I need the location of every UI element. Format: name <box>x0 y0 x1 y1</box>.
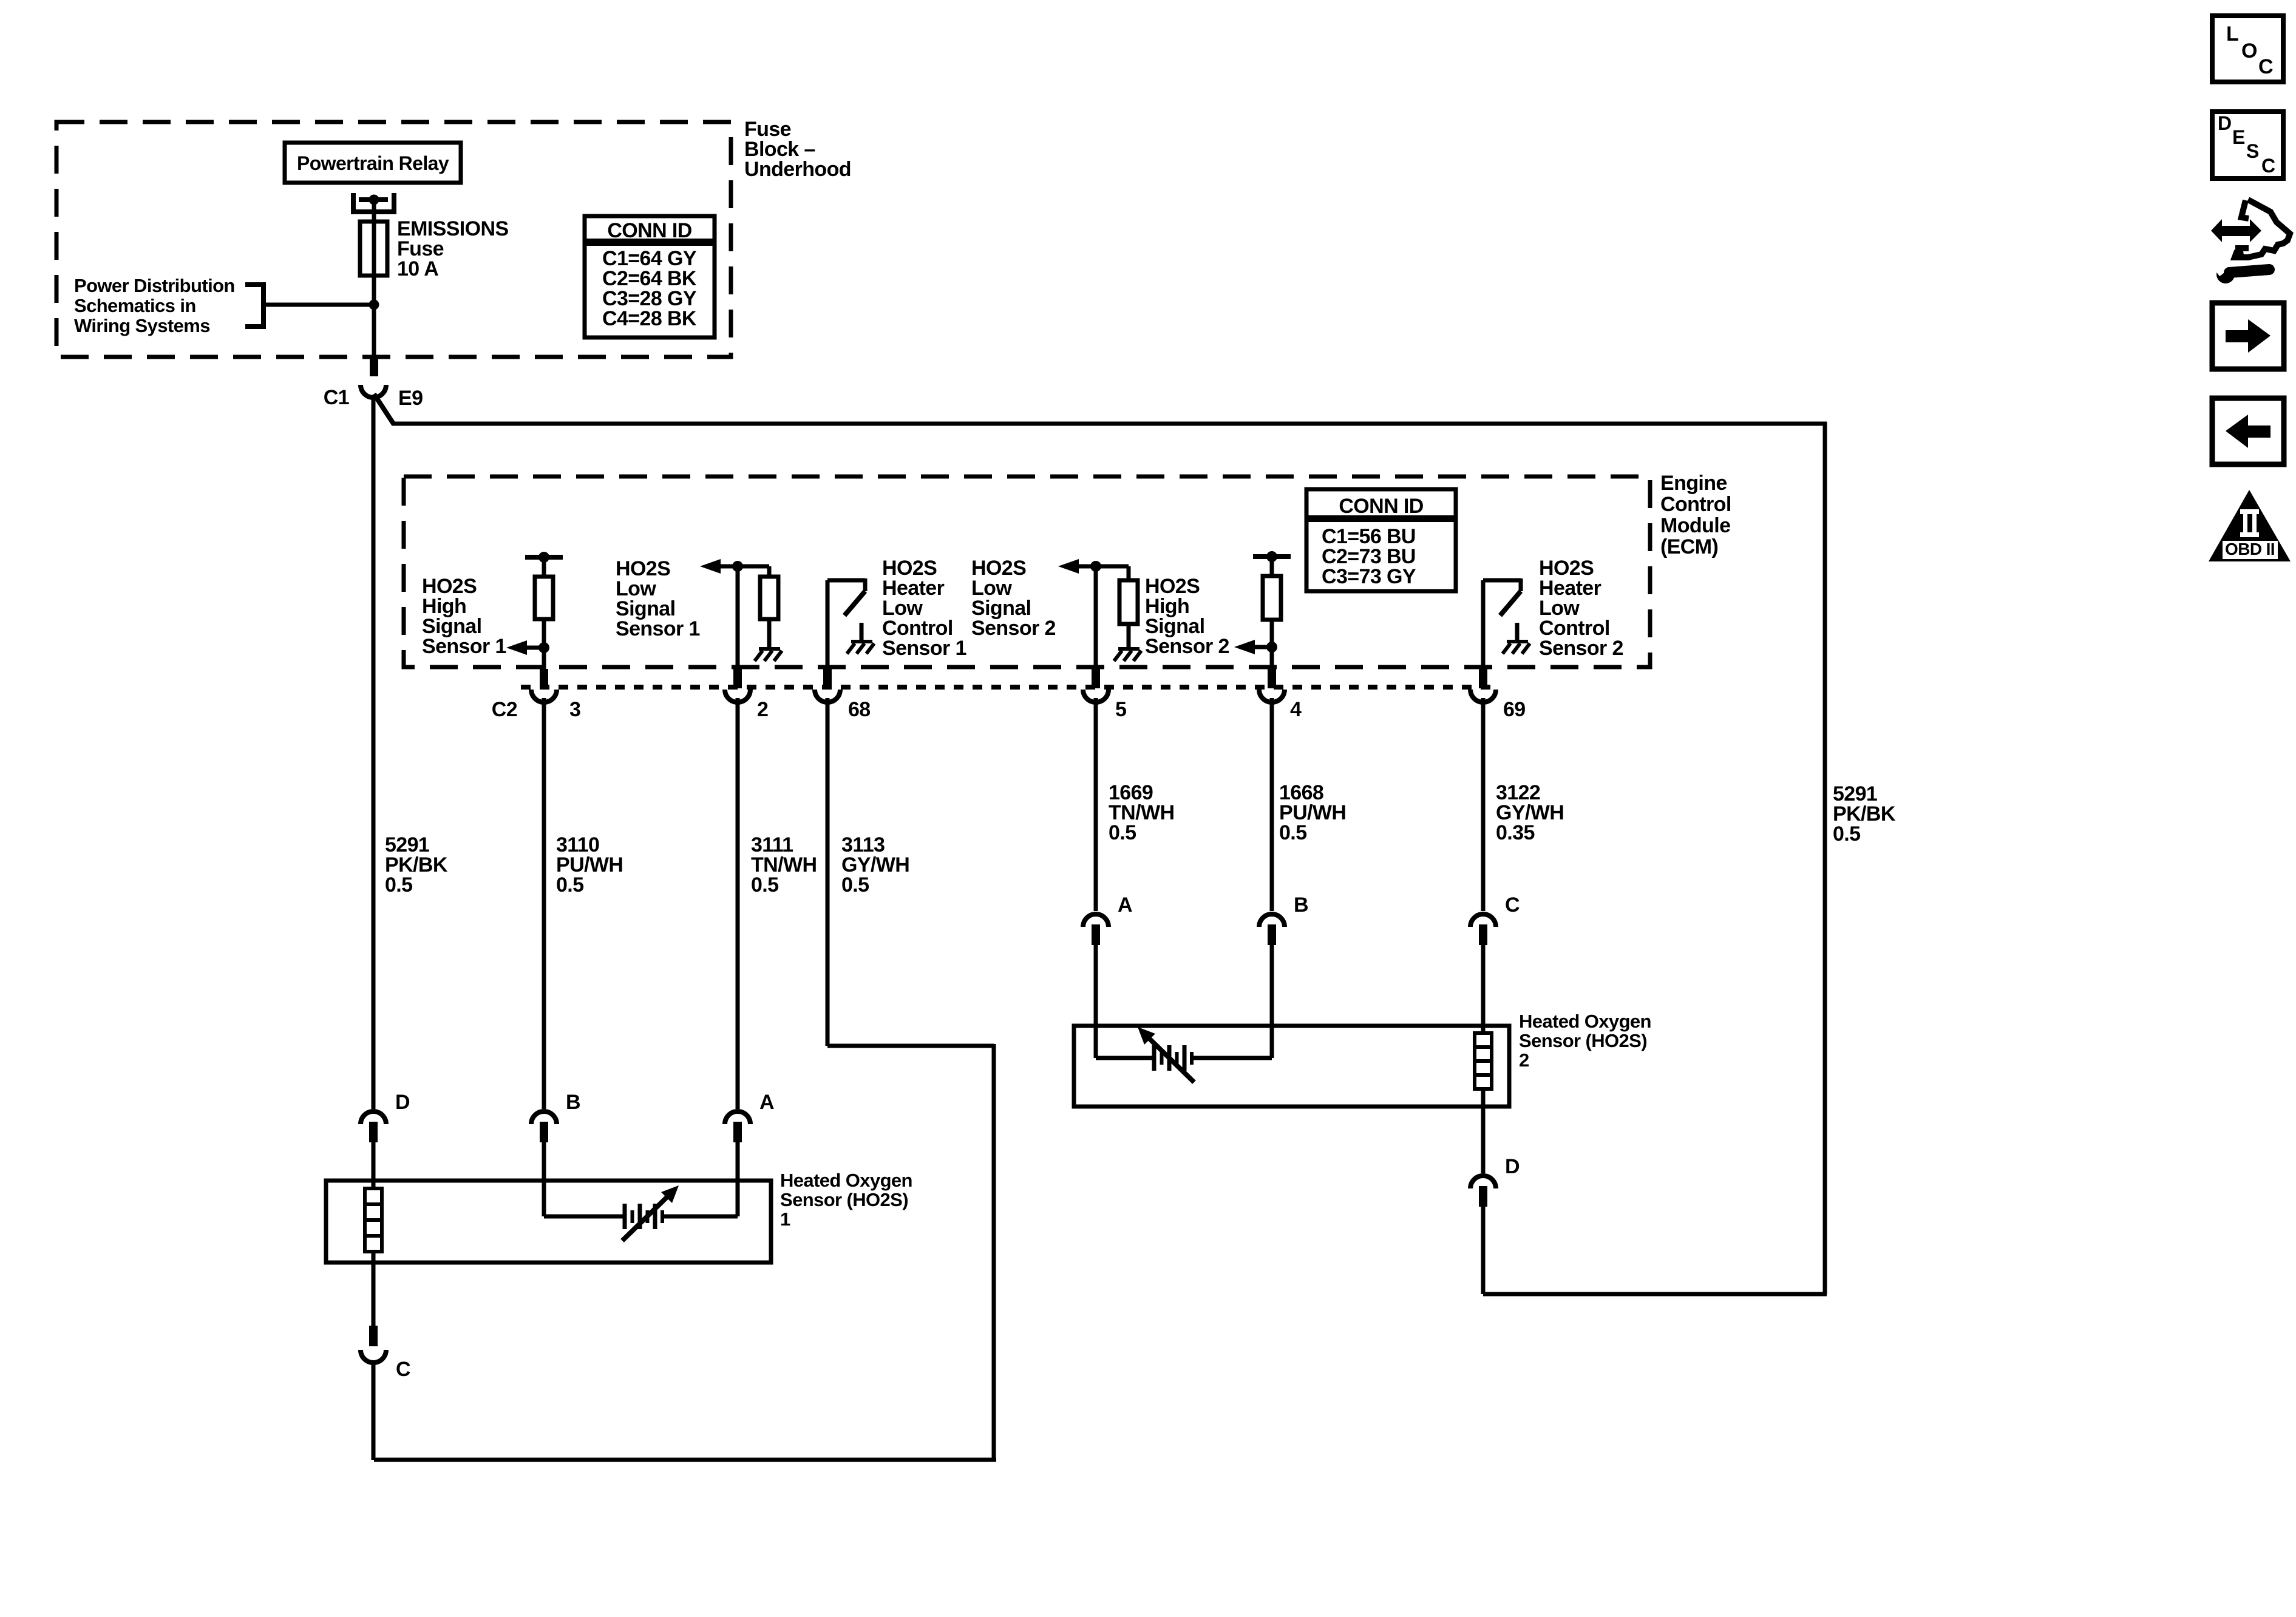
svg-text:5: 5 <box>1115 698 1126 721</box>
svg-text:OBD II: OBD II <box>2225 540 2275 558</box>
svg-text:3: 3 <box>569 698 580 721</box>
ECM pin 4 connector <box>1268 669 1276 688</box>
wire 5291 bottom right horizontal <box>1483 1292 1827 1297</box>
connector C <box>1470 914 1496 927</box>
HO2S Heater Low Control Sensor 2 switch pin 69 <box>1481 580 1486 669</box>
svg-text:O: O <box>2241 39 2257 63</box>
connector C1 E9 pin stub <box>370 357 378 376</box>
wire 3110 pin 3 down <box>542 698 546 1109</box>
svg-text:C: C <box>1505 893 1520 917</box>
wire 5291 right vertical <box>1823 422 1827 1294</box>
svg-text:C: C <box>396 1358 410 1381</box>
svg-text:CONN ID: CONN ID <box>1339 495 1423 518</box>
ECM pin 3 connector <box>540 669 548 688</box>
icon hand with wrench and double arrow <box>2211 200 2290 283</box>
wire D down to bottom rail <box>1481 1207 1486 1294</box>
CONN ID table fuse block <box>585 216 715 337</box>
svg-text:69: 69 <box>1503 698 1526 721</box>
wire 3122 pin 69 down <box>1481 698 1486 911</box>
svg-text:Powertrain Relay: Powertrain Relay <box>297 152 449 174</box>
wire A to HO2S2 battery <box>1094 945 1098 1058</box>
svg-text:2: 2 <box>757 698 768 721</box>
svg-text:C: C <box>2261 155 2275 177</box>
svg-text:D: D <box>1505 1155 1520 1178</box>
ground pin 5 resistor <box>1118 647 1140 651</box>
wire B to HO2S1 battery <box>542 1142 546 1216</box>
Powertrain Relay box <box>285 143 461 183</box>
icon DESC box <box>2212 112 2283 178</box>
svg-text:CONN ID: CONN ID <box>607 219 691 242</box>
connector A <box>1083 914 1109 927</box>
wire E9 diagonal <box>374 394 393 424</box>
power distribution bracket <box>261 282 266 329</box>
connector B <box>1259 914 1285 927</box>
wire heater to C connector <box>372 1252 376 1327</box>
fuse block - underhood dashed box <box>56 122 731 357</box>
ECM pin 69 connector <box>1479 669 1487 688</box>
ECM pin 68 connector <box>823 669 832 688</box>
icon OBD II triangle <box>2209 490 2291 561</box>
wire 3113 up to C connector <box>372 1361 376 1460</box>
ECM pin 5 connector <box>1092 669 1100 688</box>
CONN ID table ECM <box>1306 489 1456 591</box>
Heated Oxygen Sensor HO2S 2 box <box>1074 1026 1509 1107</box>
wire 1669 pin 5 down <box>1094 698 1098 911</box>
ECM pin 2 connector <box>733 669 742 688</box>
wire branch to power distribution <box>265 303 374 307</box>
HO2S High Signal Sensor 1 circuit pin 3 <box>542 560 546 669</box>
icon arrow right box <box>2212 303 2284 369</box>
connector C1 E9 arc <box>361 385 386 398</box>
svg-text:4: 4 <box>1290 698 1302 721</box>
wire 3113 bottom horizontal <box>374 1458 996 1462</box>
icon LOC box <box>2212 16 2283 82</box>
connector D <box>1470 1176 1496 1188</box>
svg-text:68: 68 <box>848 698 871 721</box>
heater element HO2S 2 <box>1475 1033 1492 1089</box>
wire D to HO2S1 <box>372 1142 376 1188</box>
svg-text:A: A <box>1118 893 1132 917</box>
fuse EMISSIONS 10A <box>372 222 376 305</box>
ground pin 68 switch <box>860 623 864 640</box>
icon arrow left box <box>2212 398 2284 464</box>
wire B to HO2S2 battery <box>1270 945 1274 1058</box>
svg-text:C1=64 GYC2=64 BKC3=28 GYC4=28: C1=64 GYC2=64 BKC3=28 GYC4=28 BK <box>602 247 697 330</box>
svg-text:D: D <box>2218 112 2232 134</box>
battery sense element HO2S 1 <box>544 1215 623 1219</box>
svg-text:C: C <box>2258 55 2273 78</box>
svg-text:B: B <box>1294 893 1308 917</box>
wire 5291 left vertical <box>372 395 376 1109</box>
svg-text:L: L <box>2226 22 2238 46</box>
svg-text:E: E <box>2232 126 2245 148</box>
node junction below fuse <box>369 300 379 310</box>
ECM connector dotted line <box>521 685 1499 690</box>
connector C <box>369 1326 378 1346</box>
wire C to HO2S2 heater <box>1481 945 1486 1033</box>
battery sense element HO2S 2 <box>1096 1056 1153 1060</box>
svg-text:C2: C2 <box>492 698 517 721</box>
HO2S Heater Low Control Sensor 1 switch pin 68 <box>826 580 830 669</box>
wire 1668 pin 4 down <box>1270 698 1274 911</box>
ground pin 2 resistor <box>759 647 780 651</box>
wire 3111 pin 2 down <box>736 698 740 1109</box>
Engine Control Module dashed box <box>404 476 1650 667</box>
svg-text:D: D <box>395 1091 410 1114</box>
wire fuse to C1 connector <box>372 305 376 357</box>
svg-text:C1: C1 <box>324 386 349 409</box>
HO2S High Signal Sensor 2 circuit pin 4 <box>1270 559 1274 669</box>
ground pin 69 switch <box>1515 623 1520 640</box>
wire relay to fuse <box>372 202 376 222</box>
svg-text:A: A <box>759 1091 774 1114</box>
wire 3113 pin 68 down with jog <box>826 698 830 1046</box>
svg-text:B: B <box>566 1091 580 1114</box>
Heated Oxygen Sensor HO2S 1 box <box>326 1181 771 1263</box>
svg-text:E9: E9 <box>398 387 423 410</box>
connector A <box>725 1111 750 1124</box>
relay contact clip <box>351 193 356 214</box>
wire 5291 top horizontal <box>392 422 1827 426</box>
heater element HO2S 1 <box>365 1188 382 1252</box>
HO2S Low Signal Sensor 2 circuit pin 5 <box>1094 566 1098 669</box>
wire A to HO2S1 battery <box>736 1142 740 1216</box>
wire heater to D connector <box>1481 1089 1486 1173</box>
connector D <box>361 1111 386 1124</box>
svg-text:S: S <box>2246 140 2259 162</box>
HO2S Low Signal Sensor 1 circuit pin 2 <box>736 566 740 669</box>
connector B <box>531 1111 557 1124</box>
svg-text:C1=56 BUC2=73 BUC3=73 GY: C1=56 BUC2=73 BUC3=73 GY <box>1322 525 1416 588</box>
